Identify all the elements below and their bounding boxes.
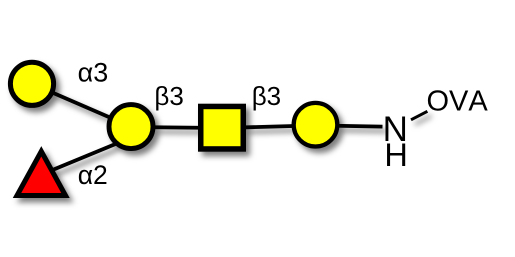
monosaccharide: fucose triangle (red) [17, 151, 66, 195]
wire: Gal b3 to GalNAc [131, 127, 222, 128]
wire: GalNAc b3 to Glc [222, 125, 316, 128]
wire: Gal a3 to Gal branch [32, 84, 131, 127]
svg-text:β3: β3 [252, 81, 281, 111]
wire: Glc to N [316, 125, 383, 126]
monosaccharide: glucose circle (right) [294, 103, 338, 147]
wire: Fuc a2 to Gal branch [50, 143, 117, 171]
monosaccharide: galactose circle (branch point) [109, 105, 153, 149]
svg-text:β3: β3 [154, 81, 183, 111]
svg-text:H: H [384, 137, 407, 173]
monosaccharide: GalNAc square [201, 106, 244, 149]
svg-text:α3: α3 [78, 58, 109, 88]
svg-text:α2: α2 [78, 160, 108, 190]
svg-text:OVA: OVA [427, 86, 489, 118]
wire: N to OVA [411, 111, 427, 120]
monosaccharide: galactose circle (top-left) [10, 62, 53, 105]
